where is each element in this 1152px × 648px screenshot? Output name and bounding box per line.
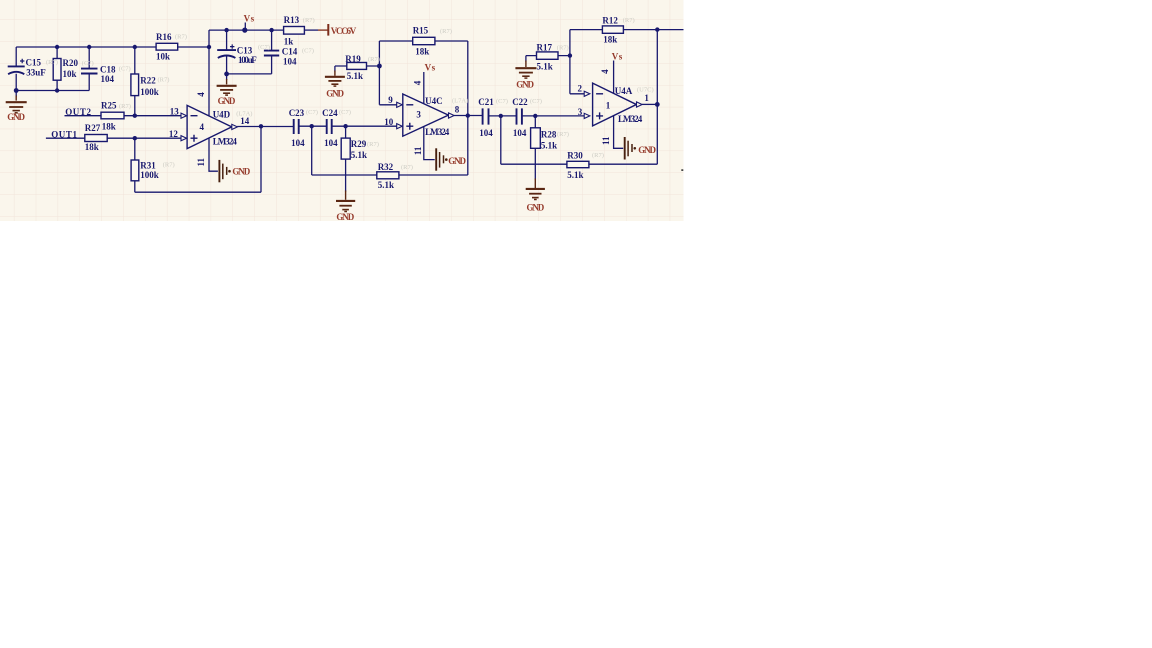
svg-text:(R7): (R7) (163, 161, 175, 168)
svg-text:3: 3 (578, 107, 583, 117)
svg-text:GND: GND (336, 212, 354, 222)
resistor R30 (567, 161, 589, 167)
resistor R27 (85, 135, 107, 142)
resistor R20 (53, 59, 61, 81)
svg-text:C21: C21 (478, 97, 494, 107)
junction dots (14, 27, 660, 140)
resistors (53, 26, 623, 181)
capacitor C13 (217, 50, 236, 58)
svg-text:Vs: Vs (244, 14, 255, 24)
svg-text:LM324: LM324 (425, 127, 450, 137)
wire R31 column (134, 138, 136, 192)
svg-text:(R7): (R7) (592, 152, 604, 159)
svg-text:100k: 100k (140, 170, 159, 180)
resistor R28 (531, 128, 541, 149)
svg-text:104: 104 (324, 138, 338, 148)
wire R28 column (534, 116, 536, 128)
wire R19 row (335, 65, 380, 67)
signal ground U4D pin 11 (219, 160, 226, 182)
wire pin4 U4C (423, 72, 425, 104)
wire pin4 U4A (613, 61, 615, 94)
svg-text:(C7): (C7) (258, 44, 270, 51)
schematic sheet (0, 0, 684, 221)
svg-text:5.1k: 5.1k (351, 150, 367, 160)
svg-text:5.1k: 5.1k (541, 140, 557, 150)
svg-text:104: 104 (283, 57, 297, 67)
svg-text:R30: R30 (567, 151, 583, 161)
svg-text:(U7C): (U7C) (637, 86, 654, 93)
wire U4D output (237, 126, 294, 128)
resistor R22 (131, 74, 139, 96)
wire R31 feedback rail (135, 127, 261, 193)
capacitor C22 (517, 108, 522, 124)
svg-text:2: 2 (578, 83, 583, 93)
svg-text:GND: GND (7, 112, 25, 122)
wire pin11 U4A (614, 116, 624, 149)
svg-text:(C7): (C7) (530, 98, 542, 105)
svg-text:C23: C23 (289, 108, 305, 118)
ground below R29 (336, 191, 355, 212)
svg-text:(R7): (R7) (119, 103, 131, 110)
svg-text:Vs: Vs (612, 51, 623, 61)
svg-text:R27: R27 (85, 123, 101, 133)
svg-text:R28: R28 (541, 130, 557, 140)
wire C13 column (226, 30, 228, 74)
wire C13-C14 bottom link (227, 56, 272, 74)
svg-text:Vs: Vs (425, 63, 436, 73)
svg-text:10k: 10k (156, 51, 170, 61)
svg-text:11: 11 (196, 157, 206, 166)
svg-text:8: 8 (455, 105, 460, 115)
svg-text:5.1k: 5.1k (378, 180, 394, 190)
svg-text:(R7): (R7) (557, 44, 569, 51)
svg-text:(R7): (R7) (46, 59, 58, 66)
svg-text:18k: 18k (603, 35, 617, 45)
svg-text:R19: R19 (345, 54, 361, 64)
svg-text:R20: R20 (63, 58, 79, 68)
svg-text:(R7): (R7) (158, 77, 170, 84)
wire top row y47 (16, 46, 209, 48)
capacitor C18 (81, 69, 98, 74)
svg-text:(C7): (C7) (82, 60, 94, 67)
wire R12 row (570, 29, 684, 31)
svg-text:5.1k: 5.1k (567, 170, 583, 180)
svg-text:R12: R12 (602, 16, 618, 26)
wire R29 column (345, 126, 347, 138)
wire U4C right vertical (467, 41, 469, 175)
wire OUT1 row (46, 137, 181, 139)
wire mid drop x500.8 (500, 116, 502, 164)
resistor R13 (284, 27, 305, 35)
capacitor C14 (264, 51, 279, 56)
svg-text:100uF: 100uF (238, 55, 257, 65)
svg-text:R22: R22 (140, 75, 156, 85)
resistor R15 (413, 37, 435, 44)
capacitor C15 (8, 66, 25, 74)
svg-text:(L7A): (L7A) (452, 98, 468, 105)
ground below R28 (526, 179, 545, 200)
svg-text:5.1k: 5.1k (347, 71, 363, 81)
svg-text:GND: GND (232, 167, 250, 177)
op-amp U4C (403, 94, 449, 136)
wire C14 top stub (271, 30, 273, 50)
wire gnd stems (16, 56, 535, 192)
svg-text:OUT2: OUT2 (65, 107, 91, 117)
svg-text:GND: GND (516, 80, 534, 90)
svg-text:VCC6V: VCC6V (331, 26, 357, 36)
wire pin11 U4C (424, 126, 435, 159)
ground below R17 (515, 61, 536, 79)
signal ground U4A pin 11 (625, 137, 632, 160)
svg-text:4: 4 (600, 69, 610, 74)
svg-text:(R7): (R7) (367, 141, 379, 148)
op-amp U4A (593, 83, 637, 126)
svg-text:10k: 10k (63, 69, 77, 79)
svg-text:1: 1 (606, 101, 611, 111)
wire U4A right vertical (656, 30, 658, 165)
ground below C13 (217, 79, 237, 95)
svg-text:104: 104 (101, 74, 115, 84)
svg-text:5.1k: 5.1k (537, 62, 553, 72)
svg-text:U4C: U4C (425, 96, 443, 106)
svg-text:R25: R25 (101, 101, 117, 111)
svg-text:C22: C22 (512, 97, 528, 107)
wire C23 C24 row (299, 125, 397, 127)
svg-text:(L7A): (L7A) (236, 110, 252, 117)
svg-text:R15: R15 (413, 26, 429, 36)
svg-text:(C7): (C7) (119, 66, 131, 73)
svg-text:18k: 18k (415, 46, 429, 56)
wire vs row y30 (209, 29, 284, 31)
ground below R19 (325, 71, 345, 87)
svg-text:4: 4 (200, 122, 205, 132)
svg-text:(R7): (R7) (368, 56, 380, 63)
svg-text:R16: R16 (156, 32, 172, 42)
capacitor C21 (483, 108, 489, 124)
svg-text:4: 4 (196, 92, 206, 97)
svg-text:(R7): (R7) (175, 34, 187, 41)
svg-text:C14: C14 (282, 46, 298, 56)
capacitor C23 (294, 119, 299, 134)
svg-text:1: 1 (644, 93, 649, 103)
wire pin11 U4D (209, 138, 218, 171)
svg-text:100k: 100k (140, 87, 159, 97)
svg-text:(R7): (R7) (623, 17, 635, 24)
svg-text:GND: GND (326, 88, 344, 98)
wire rail1 to R32 (312, 174, 468, 176)
wire bottom row y90.5 (16, 90, 89, 92)
svg-text:C15: C15 (26, 58, 42, 68)
svg-text:4: 4 (412, 80, 422, 85)
svg-text:10: 10 (384, 117, 394, 127)
svg-text:(R7): (R7) (303, 17, 315, 24)
wire mid drop x311.7 (311, 126, 313, 175)
svg-text:104: 104 (479, 128, 493, 138)
svg-text:14: 14 (240, 116, 250, 126)
resistor R29 (341, 138, 350, 159)
wire C15 column (15, 47, 17, 91)
svg-text:11: 11 (601, 136, 611, 145)
svg-text:OUT1: OUT1 (51, 129, 77, 139)
faint library annotations (46, 17, 654, 171)
wire U4C output row (454, 115, 584, 117)
svg-text:104: 104 (291, 138, 305, 148)
svg-text:(C7): (C7) (302, 48, 314, 55)
svg-text:R17: R17 (537, 43, 553, 53)
wire pin2 drop (570, 30, 584, 94)
svg-text:12: 12 (169, 129, 179, 139)
svg-text:3: 3 (416, 110, 421, 120)
resistor R17 (537, 52, 559, 59)
svg-text:(C7): (C7) (339, 109, 351, 116)
wire U4A output (642, 103, 657, 105)
ground below C15 (6, 96, 27, 113)
svg-text:18k: 18k (85, 142, 99, 152)
svg-text:R13: R13 (284, 15, 300, 25)
wire vs tick left (244, 23, 246, 31)
power port VCC6V (318, 24, 328, 36)
svg-text:(C7): (C7) (306, 109, 318, 116)
signal ground U4C pin 11 (436, 148, 443, 170)
wire R17 row (526, 55, 570, 57)
svg-text:18k: 18k (102, 121, 116, 131)
svg-text:9: 9 (388, 95, 393, 105)
wire OUT2 row (65, 115, 182, 117)
resistor R19 (347, 63, 367, 70)
wire rail2 to R30 (501, 163, 658, 165)
wire R22 column (134, 47, 136, 116)
svg-text:GND: GND (527, 203, 545, 213)
resistor R32 (377, 172, 399, 179)
svg-text:C24: C24 (322, 108, 338, 118)
svg-text:U4A: U4A (615, 86, 633, 96)
svg-text:1k: 1k (284, 37, 294, 47)
capacitor C24 (327, 119, 332, 134)
svg-text:R29: R29 (351, 139, 367, 149)
wire pin4 U4D (208, 30, 210, 116)
svg-text:104: 104 (513, 128, 527, 138)
svg-text:GND: GND (448, 156, 466, 166)
op-amp U4D (187, 105, 232, 148)
svg-text:LM324: LM324 (213, 136, 238, 146)
svg-text:GND: GND (218, 96, 236, 106)
svg-text:LM324: LM324 (618, 114, 643, 124)
svg-text:(C7): (C7) (496, 98, 508, 105)
svg-text:13: 13 (170, 106, 180, 116)
wire C18 column (88, 47, 90, 91)
svg-text:(R7): (R7) (557, 131, 569, 138)
svg-text:33uF: 33uF (26, 68, 46, 78)
wire R15 row (379, 40, 467, 42)
svg-text:(R7): (R7) (440, 28, 452, 35)
svg-text:(R7): (R7) (401, 164, 413, 171)
stray mark (681, 169, 683, 171)
svg-text:R32: R32 (378, 162, 394, 172)
wire pin9 drop (379, 41, 396, 105)
resistor R31 (131, 160, 139, 181)
wire R13 right (304, 29, 318, 31)
svg-text:11: 11 (413, 146, 423, 155)
resistor R16 (156, 43, 178, 50)
resistor R12 (602, 26, 623, 33)
svg-text:U4D: U4D (213, 110, 231, 120)
resistor R25 (101, 112, 124, 119)
wire R20 column (56, 47, 58, 91)
svg-text:GND: GND (638, 145, 656, 155)
